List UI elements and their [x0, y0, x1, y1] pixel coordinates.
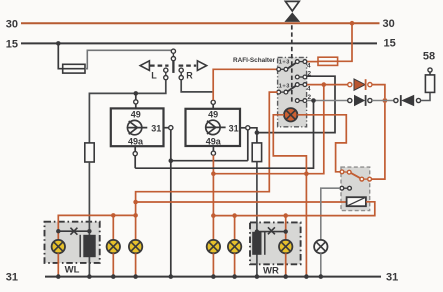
wire RAFI upper input to flasher right 49 — [213, 69, 277, 100]
wire branch down to 49a left flasher — [135, 101, 313, 169]
lamp E4 — [207, 240, 220, 253]
wire RAFI terminal 4 lower to orange diode V1 — [307, 84, 348, 86]
svg-text:49: 49 — [208, 110, 218, 120]
svg-text:15: 15 — [6, 39, 18, 51]
flasher unit right box — [186, 109, 241, 146]
wire lamp E5 to ground — [234, 253, 236, 276]
bus 15 — [6, 38, 396, 51]
lamp E3 — [129, 240, 142, 253]
WL internal link wire with service cross — [58, 228, 89, 235]
wire lamp E3 to ground — [135, 253, 137, 276]
wire lamp E2 to ground — [112, 253, 114, 276]
wire bus15 to fuse F1 — [58, 43, 62, 68]
node left feed / lamp row branch — [133, 213, 138, 218]
svg-text:31: 31 — [6, 271, 18, 283]
wire diode V3 to resistor R3 — [421, 92, 430, 100]
terminal 31 left flasher — [164, 126, 173, 130]
node right lamp row / 49a drop — [211, 213, 216, 218]
wire relay spare contact to standing lamp — [321, 188, 340, 240]
wire lamp WR to ground — [285, 253, 287, 276]
node right lamp row branch E4 — [232, 213, 237, 218]
wire pilot lamp left to ground drop — [273, 115, 306, 277]
lamp E2 — [107, 240, 120, 253]
node L wire / terminal 49 left — [134, 91, 139, 96]
wire 49a left flasher down — [134, 156, 136, 169]
wire fuse F1 to turn-switch common — [85, 50, 171, 68]
svg-text:R: R — [186, 71, 193, 81]
mechanical link dashed line from hazard knob — [291, 25, 293, 103]
wire 31-link between flashers — [171, 160, 248, 162]
node on bus 15 — [56, 41, 61, 46]
svg-text:1÷3: 1÷3 — [279, 84, 290, 90]
node terminal 2 lower branch — [311, 98, 316, 103]
RAFI switch pole 1 — [277, 60, 312, 79]
wire 49a right flasher down to lamp E3 — [212, 155, 214, 240]
svg-text:30: 30 — [6, 19, 18, 31]
terminal 31 right flasher — [240, 126, 250, 130]
svg-text:31: 31 — [386, 271, 398, 283]
svg-text:15: 15 — [384, 38, 396, 50]
wire L contact to flasher left 49 and resistor R1 — [89, 80, 165, 143]
wire branch to lamp E4 — [234, 216, 236, 241]
wire relay contact output to diode junction — [372, 103, 385, 179]
wire lamp E4 to ground — [212, 253, 214, 276]
resistor R2 — [252, 143, 261, 162]
svg-text:1÷3: 1÷3 — [279, 60, 290, 66]
wire relay coil to right lamp row — [213, 202, 374, 216]
svg-text:WL: WL — [65, 265, 80, 276]
right arrow of turn switch — [197, 61, 206, 71]
wire relay coil feed from left lamp group — [136, 201, 347, 203]
flasher symbol right — [206, 120, 226, 134]
node left lamp row branch — [111, 213, 116, 218]
flasher unit left box — [111, 108, 164, 146]
WR series element — [252, 232, 265, 255]
svg-text:58: 58 — [423, 51, 435, 63]
terminal 49 left flasher — [134, 93, 138, 108]
node resistor R2 top — [255, 130, 260, 135]
lamp WL — [52, 240, 65, 253]
fuse F1 — [63, 64, 85, 73]
node 49a right junction — [211, 171, 216, 176]
wire lamp E6 to ground — [320, 253, 322, 276]
wire diode V2 to diode V3 — [372, 100, 394, 102]
wire left lamp row — [58, 215, 135, 240]
wire pilot lamp right to relay contact — [297, 115, 346, 172]
wire RAFI lower input to left lamp group feed — [136, 92, 278, 240]
WR internal link wire with service cross — [257, 227, 286, 234]
node diode junction — [383, 98, 388, 103]
ground rail nodes — [56, 274, 323, 279]
turn signal switch common contacts — [171, 49, 175, 61]
resistor R3 — [425, 75, 434, 93]
relay contact output pair — [360, 177, 372, 181]
wire resistor R2 to WR series element and ground — [256, 162, 258, 277]
turn switch dashed actuator bar — [150, 64, 196, 66]
orange diode V1 — [348, 79, 372, 90]
contact L of turn switch — [164, 68, 168, 80]
lamp unit WL housing box — [45, 222, 100, 263]
svg-text:L: L — [151, 71, 157, 81]
fuse F2 — [318, 57, 338, 65]
relay housing box — [341, 167, 370, 211]
node bus 30 tap — [350, 21, 355, 26]
wire lamp WL to ground — [57, 253, 59, 276]
wire 31-left flasher down to ground — [170, 130, 172, 277]
svg-text:31: 31 — [151, 123, 161, 133]
wire branch to lamp E2 — [112, 215, 114, 240]
contact R of turn switch — [179, 68, 183, 80]
lamp E5 — [228, 240, 241, 253]
node WL element top — [87, 229, 91, 233]
wire resistor R1 to WL series element — [88, 162, 90, 277]
wire RAFI terminal 2 upper (black) to resistor R2 node — [257, 76, 335, 132]
relay contact input pair — [340, 170, 351, 174]
svg-text:RAFI-Schalter: RAFI-Schalter — [233, 57, 276, 64]
wire diode V1 to relay contact output riser — [372, 85, 385, 99]
diode V3 — [394, 95, 421, 106]
node right lamp row branch WR — [283, 213, 288, 218]
hazard warning triangle symbol — [284, 1, 300, 22]
turn signal switch lever — [172, 61, 174, 73]
node WR element top — [255, 229, 259, 233]
wire 31-right flasher down — [247, 130, 249, 161]
svg-text:WR: WR — [263, 266, 279, 277]
svg-text:31: 31 — [229, 123, 239, 133]
relay contact lever — [351, 173, 361, 179]
bus 31 (ground rail) — [6, 271, 399, 283]
wire RAFI terminal 2 lower (gray) to diode V2 — [307, 100, 348, 102]
node WR lamp top — [284, 229, 288, 233]
diode V2 — [348, 95, 372, 106]
svg-text:49a: 49a — [206, 136, 222, 146]
RAFI switch housing box — [278, 57, 307, 126]
terminal 49 right flasher — [211, 100, 215, 109]
RAFI switch pole 2 — [277, 83, 312, 103]
wire branch to WR lamp — [285, 216, 287, 241]
node 31-link left — [169, 158, 174, 163]
bus 30 — [6, 18, 395, 30]
resistor R1 — [85, 143, 94, 162]
lamp WR — [279, 240, 292, 253]
node WL lamp top — [56, 229, 60, 233]
wire fuse F2 to bus 30 — [338, 23, 352, 61]
terminal 49a left flasher — [133, 146, 137, 156]
terminal 58 — [423, 51, 435, 75]
svg-text:49: 49 — [131, 110, 141, 120]
svg-text:2: 2 — [308, 71, 312, 78]
svg-text:4: 4 — [307, 62, 311, 69]
relay spare contact pair — [340, 186, 351, 190]
wire R contact to flasher right 49 feed — [181, 80, 212, 92]
svg-text:4: 4 — [307, 85, 311, 92]
node terminal 4 lower branch — [322, 82, 327, 87]
left arrow of turn switch — [140, 61, 149, 71]
wire branch down to 49a-link row — [213, 85, 323, 174]
svg-text:49a: 49a — [128, 136, 144, 146]
standing light lamp E6 — [314, 240, 327, 253]
node pilot drop junction — [304, 171, 309, 176]
WL series element — [80, 235, 96, 257]
wire 31-right flasher to resistor R2 — [250, 128, 257, 143]
lamp unit WR housing box — [250, 222, 301, 264]
terminal 49a right flasher — [211, 146, 215, 155]
svg-text:30: 30 — [383, 18, 395, 30]
wire RAFI terminal 4 upper to fuse F2 — [307, 61, 319, 63]
flasher symbol left — [127, 120, 147, 134]
relay coil — [347, 197, 366, 206]
node left feed / coil branch — [133, 200, 138, 205]
RAFI pilot lamp — [284, 108, 297, 121]
